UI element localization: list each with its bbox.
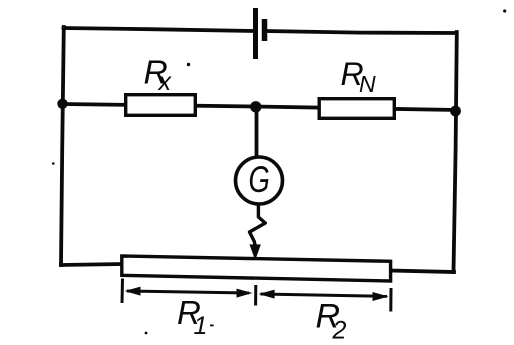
speck below R1 line — [145, 332, 148, 335]
slide-wire resistor — [122, 256, 391, 281]
svg-text:1: 1 — [194, 312, 208, 340]
battery B1 — [256, 8, 265, 59]
svg-text:x: x — [158, 68, 173, 96]
speck left wire — [52, 162, 55, 165]
dimension tick right — [389, 288, 392, 312]
resistor RN — [319, 99, 394, 119]
wire bottom right — [391, 271, 455, 273]
dimension tick left — [121, 279, 125, 304]
node right junction — [450, 106, 461, 117]
dimension tick center — [254, 285, 257, 306]
galvanometer G — [236, 157, 283, 204]
svg-text:N: N — [359, 71, 376, 97]
wire left vertical — [61, 27, 64, 265]
svg-text:2: 2 — [332, 317, 347, 345]
speck near Rx label — [187, 63, 190, 66]
wire top right — [266, 31, 456, 33]
wire middle horizontal — [63, 104, 456, 110]
wire right vertical — [454, 32, 457, 272]
wire bottom left — [61, 264, 122, 265]
svg-text:G: G — [249, 159, 270, 200]
speck after R1 — [210, 325, 214, 327]
dimension line R2 — [259, 290, 389, 301]
speck top right — [503, 9, 506, 12]
dimension line R1 — [125, 287, 253, 298]
node center junction — [250, 101, 261, 112]
wire galvanometer drop — [255, 107, 259, 157]
node left junction — [57, 99, 67, 109]
resistor Rx — [126, 95, 196, 116]
wiper squiggle with arrow — [250, 204, 266, 259]
wire top left — [64, 28, 253, 31]
